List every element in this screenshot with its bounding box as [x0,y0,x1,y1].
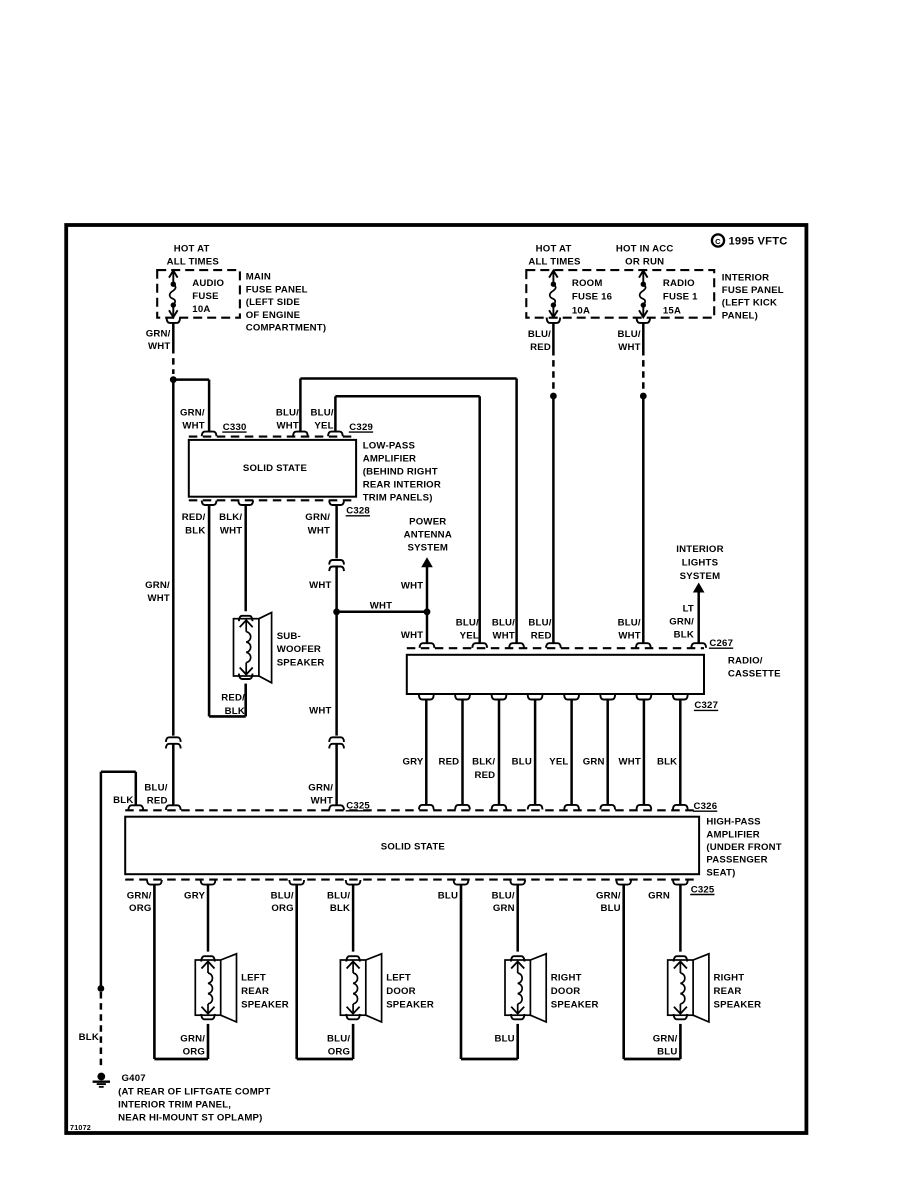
svg-text:WHT: WHT [618,757,640,768]
svg-text:BLK: BLK [674,630,694,641]
svg-text:GRN: GRN [493,903,515,914]
wire BLU/WHT bus [299,379,302,432]
svg-text:RED: RED [147,796,168,807]
svg-text:BLU/: BLU/ [327,890,350,901]
svg-text:SOLID STATE: SOLID STATE [381,842,446,853]
svg-text:GRN/: GRN/ [127,890,152,901]
connector C327 bumps [419,695,434,700]
wire left door speaker SP3 to speaker [352,885,355,952]
svg-text:ALL TIMES: ALL TIMES [167,257,220,268]
svg-text:REAR: REAR [714,986,742,997]
svg-text:RADIO: RADIO [663,278,695,289]
svg-text:ORG: ORG [271,903,293,914]
svg-text:LOW-PASS: LOW-PASS [363,440,416,451]
svg-text:ALL TIMES: ALL TIMES [528,257,581,268]
svg-text:BLK: BLK [225,706,245,717]
svg-text:BLU: BLU [512,757,532,768]
svg-text:SYSTEM: SYSTEM [680,571,721,582]
junction node C [640,393,647,400]
svg-text:WHT: WHT [311,796,333,807]
svg-text:C326: C326 [694,801,718,812]
svg-text:GRN/: GRN/ [180,1034,205,1045]
connector C328 bumps [202,500,217,505]
svg-text:LEFT: LEFT [386,973,411,984]
svg-text:DOOR: DOOR [386,986,416,997]
svg-text:ROOM: ROOM [572,278,603,289]
svg-text:REAR INTERIOR: REAR INTERIOR [363,480,441,491]
svg-text:ANTENNA: ANTENNA [404,530,452,541]
svg-text:BLK/: BLK/ [472,757,495,768]
svg-text:GRN/: GRN/ [669,617,694,628]
svg-text:GRN/: GRN/ [308,782,333,793]
svg-text:15A: 15A [663,305,681,316]
inline connector on long run [166,737,181,742]
wire right rear speaker SP5 to speaker [679,885,682,952]
wire left door speaker SP3 bottom jog [297,1058,353,1061]
svg-text:BLU/: BLU/ [528,329,551,340]
svg-text:RIGHT: RIGHT [714,973,745,984]
svg-text:NEAR HI-MOUNT ST OPLAMP): NEAR HI-MOUNT ST OPLAMP) [118,1113,262,1124]
connector at left rear speaker SP2 top [201,956,215,961]
svg-text:WHT: WHT [401,630,423,641]
border frame [66,225,806,1133]
svg-text:SOLID STATE: SOLID STATE [243,463,308,474]
svg-text:BLU/: BLU/ [492,890,515,901]
connector at left rear speaker SP2 bottom [201,1014,215,1019]
wire WHT middle [335,567,338,736]
wire RED/BLK down [208,505,211,716]
connector at sub-woofer top [239,616,253,621]
svg-text:POWER: POWER [409,517,446,528]
wire BLK hat [101,771,136,774]
svg-text:OR RUN: OR RUN [625,257,664,268]
wire WHT upper [335,505,338,558]
svg-text:MAIN: MAIN [246,272,271,283]
copyright logo 1995 VFTC [712,234,724,246]
svg-text:LT: LT [683,603,694,614]
connector at sub-woofer bottom [239,674,253,679]
op-amp U1 low-pass amplifier box [189,440,356,497]
svg-text:BLU: BLU [657,1047,677,1058]
svg-text:RED: RED [531,631,552,642]
svg-text:INTERIOR TRIM PANEL,: INTERIOR TRIM PANEL, [118,1100,231,1111]
junction node D [333,608,340,615]
svg-text:INTERIOR: INTERIOR [676,544,723,555]
svg-text:G407: G407 [122,1073,146,1084]
wire right door speaker SP4 bottom jog [461,1058,518,1061]
radio/cassette unit box [407,655,704,694]
wire BLU/WHT to radio [642,396,645,643]
svg-text:FUSE: FUSE [192,291,219,302]
svg-text:10A: 10A [572,305,590,316]
wire left rear speaker SP2 bottom jog [154,1058,208,1061]
svg-text:PASSENGER: PASSENGER [706,855,767,866]
svg-text:BLU/: BLU/ [492,617,515,628]
svg-text:WHT: WHT [308,526,330,537]
wire GRN/WHT long run [172,380,175,736]
svg-text:WHT: WHT [309,580,331,591]
svg-text:BLU/: BLU/ [528,617,551,628]
connector line above high-pass amp [125,809,699,811]
connector line below low-pass amp [189,499,356,501]
svg-text:SPEAKER: SPEAKER [551,999,599,1010]
connector at right rear speaker SP5 top [674,956,688,961]
svg-text:FUSE 16: FUSE 16 [572,292,612,303]
svg-text:WHT: WHT [618,342,640,353]
svg-text:BLU/: BLU/ [618,617,641,628]
svg-text:GRY: GRY [184,890,205,901]
svg-text:BLU: BLU [438,890,458,901]
svg-text:BLU/: BLU/ [618,329,641,340]
connector under room fuse [547,318,561,323]
svg-text:GRN/: GRN/ [180,407,205,418]
svg-text:C325: C325 [691,884,715,895]
svg-text:FUSE PANEL: FUSE PANEL [722,285,784,296]
svg-text:BLU: BLU [494,1034,514,1045]
svg-text:YEL: YEL [314,421,333,432]
connector at left door speaker SP3 top [346,956,360,961]
connector at right door speaker SP4 top [511,956,525,961]
svg-text:GRN: GRN [583,757,605,768]
svg-text:HIGH-PASS: HIGH-PASS [706,817,761,828]
connector line C267 [407,647,704,649]
svg-text:GRY: GRY [402,757,423,768]
svg-text:RIGHT: RIGHT [551,973,582,984]
svg-text:C330: C330 [223,422,247,433]
wire left rear speaker SP2 to speaker [207,885,210,952]
wire BLU/YEL bus [334,396,337,431]
svg-text:C327: C327 [694,700,718,711]
junction node F [98,985,105,992]
connector C329 bumps [293,432,308,437]
svg-text:RED/: RED/ [221,693,245,704]
junction node A [170,376,177,383]
connector C325 bumps (amp top) [128,805,143,810]
interior fuse panel box (dashed) [526,270,714,318]
wire WHT horizontal link [337,611,427,614]
connector under audio fuse [167,318,181,323]
svg-text:BLU/: BLU/ [276,407,299,418]
wire right rear speaker SP5 bottom jog [624,1058,681,1061]
wire right door speaker SP4 to speaker [516,885,519,952]
svg-text:BLU/: BLU/ [327,1034,350,1045]
svg-text:BLK: BLK [330,903,350,914]
connector line below high-pass amp [125,879,699,881]
svg-text:WHT: WHT [182,421,204,432]
svg-text:(BEHIND RIGHT: (BEHIND RIGHT [363,467,438,478]
svg-text:REAR: REAR [241,986,269,997]
svg-text:SPEAKER: SPEAKER [714,999,762,1010]
svg-text:TRIM PANELS): TRIM PANELS) [363,493,433,504]
connector C330 bumps [202,432,217,437]
svg-text:WHT: WHT [309,706,331,717]
svg-text:(AT REAR OF LIFTGATE COMPT: (AT REAR OF LIFTGATE COMPT [118,1087,270,1098]
connector at right rear speaker SP5 bottom [674,1014,688,1019]
arrow to interior lights system [693,583,705,593]
svg-text:BLU/: BLU/ [311,407,334,418]
arrow to power antenna system [421,557,433,567]
connector C325 bumps (amp bottom) [147,880,162,885]
svg-text:WHT: WHT [401,581,423,592]
svg-text:AMPLIFIER: AMPLIFIER [363,453,417,464]
connector C267 bumps [420,643,435,648]
svg-text:(LEFT SIDE: (LEFT SIDE [246,297,301,308]
wire BLU/RED dashed (room fuse) [552,323,555,349]
inline connector on WHT wire [329,560,344,565]
svg-text:ORG: ORG [328,1047,350,1058]
svg-text:RED/: RED/ [182,512,206,523]
svg-text:LIGHTS: LIGHTS [682,558,719,569]
svg-text:WHT: WHT [493,631,515,642]
svg-text:BLK/: BLK/ [219,512,242,523]
wire GRN/WHT dashed from fuse [172,323,175,347]
svg-text:AMPLIFIER: AMPLIFIER [706,829,760,840]
svg-text:OF ENGINE: OF ENGINE [246,310,301,321]
svg-text:SPEAKER: SPEAKER [386,999,434,1010]
inline connector on GRN/WHT wire to amp [329,737,344,742]
svg-text:BLU: BLU [600,903,620,914]
fuse RADIO FUSE 1 15A [639,271,648,278]
svg-text:DOOR: DOOR [551,986,581,997]
svg-text:BLU/: BLU/ [144,782,167,793]
connector at left door speaker SP3 bottom [346,1014,360,1019]
svg-text:GRN: GRN [648,890,670,901]
fuse AUDIO FUSE 10A [169,271,178,278]
wire GRN/WHT to C330 [173,378,209,381]
ground G407 [97,1073,105,1081]
svg-text:WHT: WHT [370,601,392,612]
connector under radio fuse [637,318,651,323]
svg-text:AUDIO: AUDIO [192,278,224,289]
svg-text:RADIO/: RADIO/ [728,656,763,667]
sub-woofer speaker SP1 [234,619,259,676]
svg-text:WHT: WHT [148,341,170,352]
junction node B [550,393,557,400]
wire BLU/RED to high-pass amp [172,744,175,806]
svg-text:HOT AT: HOT AT [174,243,210,254]
svg-text:GRN/: GRN/ [596,890,621,901]
svg-text:(UNDER FRONT: (UNDER FRONT [706,842,781,853]
svg-text:GRN/: GRN/ [305,512,330,523]
svg-text:YEL: YEL [460,631,479,642]
svg-text:WOOFER: WOOFER [277,644,321,655]
svg-text:WHT: WHT [277,421,299,432]
connector C326 bumps [419,805,434,810]
wire right door speaker SP4 feed [460,885,463,1059]
right rear speaker SP5 [668,960,693,1015]
svg-text:C328: C328 [346,506,370,517]
svg-text:WHT: WHT [220,526,242,537]
wires radio to high-pass amp [425,700,428,805]
wire left rear speaker SP2 feed [153,885,156,1059]
junction node E [424,608,431,615]
main fuse panel box (dashed) [157,270,240,318]
svg-text:SUB-: SUB- [277,631,301,642]
svg-text:INTERIOR: INTERIOR [722,272,769,283]
svg-text:GRN/: GRN/ [146,328,171,339]
svg-text:RED: RED [438,757,459,768]
wire BLU/WHT dashed (radio fuse) [642,323,645,349]
svg-text:1995 VFTC: 1995 VFTC [729,236,788,248]
svg-text:SPEAKER: SPEAKER [277,657,325,668]
svg-text:WHT: WHT [618,631,640,642]
svg-text:GRN/: GRN/ [653,1034,678,1045]
svg-text:SYSTEM: SYSTEM [407,543,448,554]
left door speaker SP3 [340,960,365,1015]
connector at right door speaker SP4 bottom [511,1014,525,1019]
svg-text:ORG: ORG [129,903,151,914]
svg-text:CASSETTE: CASSETTE [728,668,781,679]
svg-text:HOT AT: HOT AT [536,243,572,254]
op-amp U2 high-pass amplifier box [125,817,699,875]
wire BLK dashed to ground [100,992,103,1070]
svg-text:SPEAKER: SPEAKER [241,999,289,1010]
svg-text:10A: 10A [192,304,210,315]
wire BLK/WHT to sub-woofer [244,505,247,611]
svg-text:C: C [715,237,721,246]
svg-text:BLK: BLK [185,526,205,537]
svg-text:ORG: ORG [183,1047,205,1058]
svg-text:FUSE PANEL: FUSE PANEL [246,284,308,295]
wire RED/BLK bottom jog [209,715,246,718]
connector line above low-pass amp [189,436,356,438]
svg-text:COMPARTMENT): COMPARTMENT) [246,323,327,334]
svg-text:C267: C267 [709,638,733,649]
wire WHT to radio C267 [426,612,429,643]
svg-text:GRN/: GRN/ [145,580,170,591]
svg-text:(LEFT KICK: (LEFT KICK [722,298,777,309]
svg-text:LEFT: LEFT [241,973,266,984]
svg-text:RED: RED [530,342,551,353]
svg-text:WHT: WHT [147,593,169,604]
svg-text:BLU/: BLU/ [456,617,479,628]
svg-text:HOT IN ACC: HOT IN ACC [616,243,674,254]
svg-text:71072: 71072 [70,1123,91,1132]
svg-text:BLU/: BLU/ [271,890,294,901]
svg-text:C329: C329 [349,422,373,433]
svg-text:FUSE 1: FUSE 1 [663,292,698,303]
wire BLU/RED to radio [552,396,555,643]
fuse ROOM FUSE 16 10A [549,271,558,278]
wire LT GRN/BLK [697,593,700,644]
right door speaker SP4 [505,960,530,1015]
svg-text:RED: RED [474,770,495,781]
svg-text:YEL: YEL [549,757,568,768]
wire WHT to power antenna [426,567,429,612]
wire GRN/WHT into C325 [335,744,338,806]
svg-text:PANEL): PANEL) [722,310,758,321]
left rear speaker SP2 [195,960,220,1015]
wire right rear speaker SP5 feed [622,885,625,1059]
svg-text:SEAT): SEAT) [706,867,735,878]
svg-text:BLK: BLK [79,1032,99,1043]
wire left door speaker SP3 feed [295,885,298,1059]
svg-text:BLK: BLK [657,757,677,768]
